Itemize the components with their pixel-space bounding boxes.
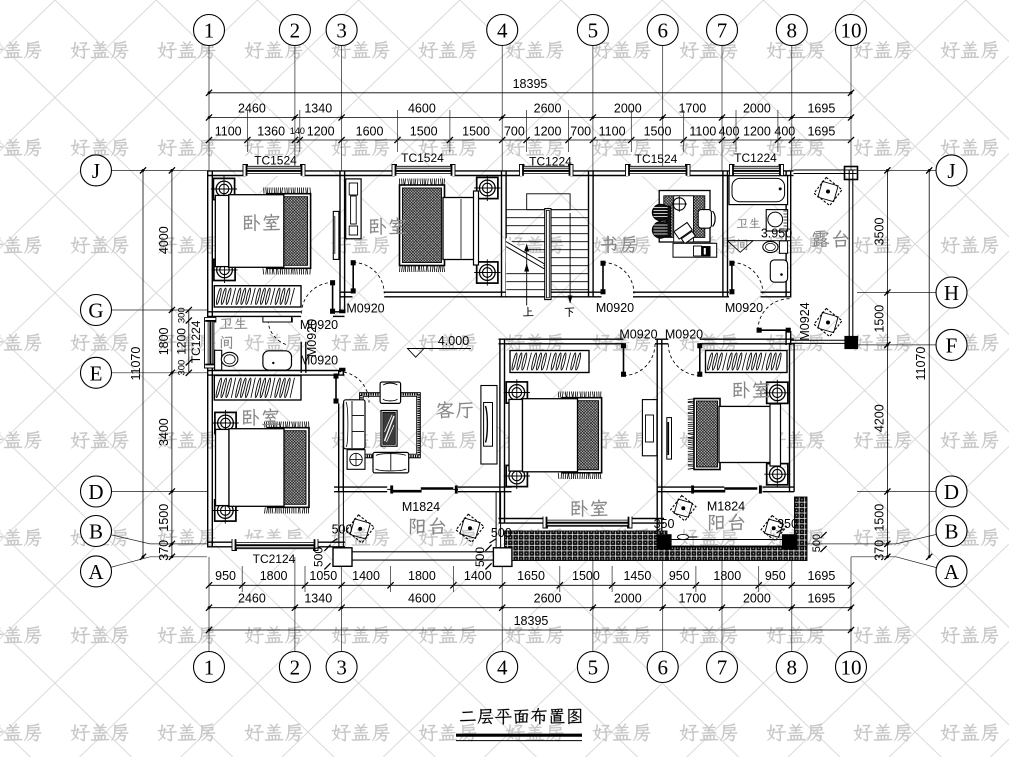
axis A right leader <box>851 557 936 568</box>
bathroom right wall <box>300 315 302 317</box>
wardrobe bedroom1 <box>214 286 301 307</box>
room label 卫生间 top bath <box>737 218 761 228</box>
window TC1224 stairwell <box>520 165 574 177</box>
svg-text:3400: 3400 <box>157 418 171 446</box>
svg-text:1500: 1500 <box>410 124 438 138</box>
svg-text:1500: 1500 <box>157 504 171 532</box>
stair label 上 <box>523 307 533 316</box>
plant right balcony E <box>761 516 786 541</box>
window TC1224 bath <box>730 165 784 177</box>
elevation 3.950 <box>727 240 791 242</box>
sofa west <box>344 400 365 449</box>
svg-text:4: 4 <box>497 655 508 679</box>
svg-text:1800: 1800 <box>260 569 288 583</box>
plant right balcony W <box>671 496 696 521</box>
top dimension line total 18395 <box>209 92 851 94</box>
svg-text:1400: 1400 <box>464 569 492 583</box>
svg-text:1200: 1200 <box>307 124 335 138</box>
svg-text:1340: 1340 <box>304 102 332 116</box>
svg-text:M0920: M0920 <box>596 301 634 315</box>
column right bedroom SE <box>764 461 790 487</box>
column bedroom1 NW <box>211 176 237 202</box>
room label 卧室 bedroom2 <box>370 217 406 234</box>
svg-text:1800: 1800 <box>408 569 436 583</box>
svg-text:1050: 1050 <box>309 569 337 583</box>
svg-text:2460: 2460 <box>238 102 266 116</box>
svg-text:H: H <box>944 281 959 305</box>
checker strip center (tall) <box>505 531 668 561</box>
svg-text:1650: 1650 <box>517 569 545 583</box>
axis bubbles left <box>81 155 112 186</box>
interior wall bedrooms1/2 divider <box>339 171 341 312</box>
stair label 下 <box>565 308 575 318</box>
svg-text:E: E <box>90 361 103 385</box>
axis A left leader <box>110 557 207 568</box>
top extension lines <box>246 110 248 152</box>
svg-text:TC2124: TC2124 <box>253 552 296 566</box>
svg-text:500: 500 <box>491 526 512 540</box>
desk crosshair <box>673 198 685 210</box>
svg-text:4.000: 4.000 <box>438 334 469 348</box>
wardrobe right bedroom <box>706 351 788 373</box>
window bc-bedroom bottom <box>543 517 632 529</box>
svg-text:1500: 1500 <box>644 124 672 138</box>
svg-text:1340: 1340 <box>304 592 332 606</box>
svg-text:5: 5 <box>588 655 599 679</box>
sliding door M1824 right balcony <box>694 490 726 493</box>
corridor top wall <box>340 291 353 293</box>
bedside panel bedroom1 east wall <box>333 211 339 259</box>
svg-text:1: 1 <box>204 655 215 679</box>
column bc-bedroom SW <box>504 463 530 489</box>
door M0920 right bedroom <box>699 345 701 376</box>
svg-text:2000: 2000 <box>614 592 642 606</box>
left dimension axis row <box>171 170 173 556</box>
side table SW <box>347 450 365 470</box>
stair lower treads <box>506 274 544 290</box>
svg-text:2600: 2600 <box>534 102 562 116</box>
stair center rail <box>545 209 551 300</box>
svg-text:2: 2 <box>290 18 301 42</box>
horizontal axis grid lines left stubs <box>112 169 208 171</box>
svg-text:7: 7 <box>717 18 728 42</box>
window TC1224 bathroom left (vertical) <box>205 317 216 368</box>
armchair north <box>380 382 401 403</box>
right balcony column W (filled) <box>657 535 671 549</box>
bed bedroom2 (head right) <box>400 179 445 273</box>
svg-text:500: 500 <box>473 547 487 567</box>
room label 卫生间 left <box>220 317 247 329</box>
terrace corner post J <box>845 167 858 180</box>
stair right wall <box>588 171 590 297</box>
svg-text:18395: 18395 <box>514 614 549 628</box>
svg-text:1700: 1700 <box>678 592 706 606</box>
room label 书房 study <box>601 236 637 253</box>
room label 阳台 left balcony <box>410 517 445 535</box>
svg-text:M0920: M0920 <box>665 327 703 341</box>
svg-text:8: 8 <box>787 655 798 679</box>
svg-text:140: 140 <box>290 126 305 136</box>
svg-text:1500: 1500 <box>462 124 490 138</box>
stair break lines <box>506 247 548 272</box>
svg-text:TC1524: TC1524 <box>401 151 444 165</box>
right bedroom bottom wall <box>657 486 724 488</box>
svg-text:D: D <box>88 480 103 504</box>
toilet bathroom left <box>215 350 222 370</box>
top dimension line axis spans <box>209 117 851 119</box>
svg-text:B: B <box>944 519 958 543</box>
svg-text:350: 350 <box>777 517 798 531</box>
study right / bath left wall <box>722 171 724 297</box>
svg-text:1800: 1800 <box>157 327 171 355</box>
office chair east <box>698 210 711 229</box>
plant terrace S <box>814 308 842 336</box>
washbasin unit top bath <box>766 210 787 231</box>
svg-text:M0920: M0920 <box>305 319 319 357</box>
plant left balcony W <box>346 515 374 543</box>
svg-text:2000: 2000 <box>614 102 642 116</box>
bed right bedroom (head right) <box>688 399 694 469</box>
svg-text:950: 950 <box>669 569 690 583</box>
svg-text:1200: 1200 <box>175 328 189 355</box>
svg-text:3: 3 <box>336 18 347 42</box>
bed bc-bedroom <box>509 392 602 480</box>
column bedroom2 SE <box>474 259 500 285</box>
svg-text:1700: 1700 <box>678 102 706 116</box>
svg-text:M1824: M1824 <box>707 499 745 513</box>
exterior left wall <box>207 171 209 319</box>
svg-text:4000: 4000 <box>157 226 171 254</box>
nook jamb caps <box>339 310 345 313</box>
svg-text:500: 500 <box>312 547 326 567</box>
stairwell treads <box>506 210 588 290</box>
terrace bottom rail <box>791 339 849 341</box>
svg-text:11070: 11070 <box>129 347 143 381</box>
door M0920 bedroom2 <box>352 262 354 293</box>
room label 卧室 right <box>734 381 770 398</box>
bed bedroom1 <box>215 188 310 275</box>
toilet top bath <box>763 241 778 252</box>
sink bathroom left <box>263 351 292 370</box>
svg-text:300: 300 <box>177 307 188 323</box>
right dimension axis row <box>886 170 888 556</box>
svg-text:1695: 1695 <box>807 124 835 138</box>
svg-text:M1824: M1824 <box>402 500 440 514</box>
horizontal axis grid lines right stubs <box>857 169 936 171</box>
door M0920 bedroom1 <box>332 282 334 313</box>
tv panel right bedroom west wall <box>667 418 672 460</box>
svg-text:1200: 1200 <box>534 124 562 138</box>
stair landing <box>527 194 570 210</box>
svg-text:M0920: M0920 <box>300 353 338 367</box>
checker strip right vertical <box>795 497 808 546</box>
svg-text:10: 10 <box>841 655 862 679</box>
column bedroom2 NE <box>474 175 500 201</box>
svg-text:1500: 1500 <box>572 569 600 583</box>
bed bottom-left bedroom <box>216 422 310 514</box>
room label 卧室 bottom-center <box>572 499 608 516</box>
bathtub <box>729 176 788 205</box>
window TC2124 bottom-left bedroom <box>232 539 318 551</box>
svg-text:1450: 1450 <box>623 569 651 583</box>
door M0920 bathroom <box>268 319 292 321</box>
svg-text:1100: 1100 <box>215 124 242 138</box>
svg-text:D: D <box>944 480 959 504</box>
window TC1524 bedroom2 <box>392 165 455 177</box>
svg-text:J: J <box>947 159 955 183</box>
svg-text:1500: 1500 <box>872 305 886 333</box>
svg-text:950: 950 <box>215 569 236 583</box>
svg-text:F: F <box>946 333 958 357</box>
svg-text:5: 5 <box>588 18 599 42</box>
loveseat south <box>373 452 409 473</box>
bottom extension lines <box>241 566 243 592</box>
axis bubbles bottom <box>194 652 225 683</box>
living room rug <box>360 393 421 458</box>
svg-text:1100: 1100 <box>599 124 626 138</box>
svg-text:1695: 1695 <box>807 569 835 583</box>
plant terrace N <box>814 177 842 205</box>
door M0920 study <box>602 262 604 293</box>
elevation 4.000 <box>407 348 471 350</box>
svg-text:500: 500 <box>332 522 353 536</box>
door M0920 bc-bedroom <box>623 345 625 376</box>
left balcony column E <box>493 548 512 567</box>
svg-text:6: 6 <box>657 18 668 42</box>
desk chairs west (dark) <box>652 204 670 238</box>
svg-text:300: 300 <box>177 360 188 376</box>
column bottom-left bedroom S <box>212 497 238 523</box>
svg-text:1200: 1200 <box>743 124 771 138</box>
svg-text:1695: 1695 <box>807 592 835 606</box>
room label 阳台 right balcony <box>709 513 744 531</box>
door M0920 top bath <box>731 262 733 293</box>
stair break mask <box>506 243 549 296</box>
bathroom bottom wall <box>207 370 345 372</box>
window TC1524 study <box>626 165 691 177</box>
svg-text:1800: 1800 <box>713 569 741 583</box>
svg-text:1400: 1400 <box>352 569 380 583</box>
living room bottom wall <box>334 486 387 488</box>
vertical axis grid lines <box>209 46 851 652</box>
study side table <box>673 243 717 257</box>
keyboard tilted <box>674 222 696 244</box>
exterior top wall <box>207 170 246 172</box>
bathroom top wall / bedroom1 south <box>207 311 301 313</box>
sliding door M1824 living room <box>387 488 392 490</box>
door M0920 bottom-left bedroom <box>335 375 337 403</box>
svg-text:7: 7 <box>717 655 728 679</box>
bottom dimension axis row <box>209 607 851 609</box>
svg-text:M0920: M0920 <box>725 301 763 315</box>
exterior right wall lower (bedroom) <box>789 343 791 492</box>
door M0924 terrace <box>758 329 790 331</box>
svg-text:700: 700 <box>504 124 525 138</box>
svg-text:TC1224: TC1224 <box>529 154 572 168</box>
axis B right leader <box>807 535 936 544</box>
svg-text:2000: 2000 <box>743 592 771 606</box>
svg-text:4600: 4600 <box>408 592 436 606</box>
svg-text:4600: 4600 <box>408 102 436 116</box>
bc-bedroom bottom wall <box>499 518 547 520</box>
plant left balcony E <box>456 514 484 542</box>
corridor bottom wall (south bedrooms top) <box>499 338 624 340</box>
coffee table <box>381 411 397 447</box>
svg-text:A: A <box>944 560 960 584</box>
left dimension total 11070 <box>142 170 144 556</box>
axis B left leader <box>110 535 207 544</box>
left balcony side rails <box>338 492 340 548</box>
svg-text:1500: 1500 <box>872 504 886 532</box>
right dimension total 11070 <box>928 170 930 556</box>
svg-text:11070: 11070 <box>914 347 928 381</box>
stair left wall <box>501 171 503 297</box>
svg-text:3: 3 <box>336 655 347 679</box>
svg-text:TC1524: TC1524 <box>635 152 678 166</box>
terrace top rail <box>794 169 857 171</box>
stair up arrow <box>526 249 528 306</box>
svg-text:2600: 2600 <box>534 592 562 606</box>
bottom-left bedroom bottom wall <box>207 541 235 543</box>
axis bubbles right <box>936 155 967 186</box>
svg-text:18395: 18395 <box>513 77 548 91</box>
svg-text:700: 700 <box>570 124 591 138</box>
room label 卧室 bedroom1 <box>244 214 280 231</box>
svg-text:TC1224: TC1224 <box>189 320 203 363</box>
column right bedroom NE <box>764 380 790 406</box>
shower basin top bath <box>770 260 787 282</box>
column bottom-left bedroom N <box>212 410 238 436</box>
wardrobe bc-bedroom <box>510 351 589 373</box>
room label 卧室 bottom-left <box>243 408 279 425</box>
top dimension line detail row <box>209 139 851 141</box>
shelf above sink <box>263 317 292 322</box>
svg-text:1695: 1695 <box>807 102 835 116</box>
study desk <box>659 191 710 243</box>
svg-text:J: J <box>92 159 100 183</box>
svg-text:M0920: M0920 <box>346 301 384 315</box>
tv panel bc-bedroom east wall <box>642 400 657 456</box>
svg-text:G: G <box>88 298 103 322</box>
terrace corner post F (filled) <box>845 337 858 349</box>
living room left wall <box>338 371 340 375</box>
left balcony column W <box>333 548 352 567</box>
bottom dimension total 18395 <box>209 629 851 631</box>
room label 露台 terrace <box>812 230 848 248</box>
svg-text:1: 1 <box>204 18 215 42</box>
svg-text:TC1524: TC1524 <box>254 153 297 167</box>
svg-text:A: A <box>88 560 104 584</box>
svg-text:6: 6 <box>657 655 668 679</box>
drain symbol right balcony <box>678 534 689 539</box>
living room / bc-bedroom divider wall <box>499 339 501 523</box>
wardrobe bottom-left bedroom <box>214 376 301 401</box>
svg-text:950: 950 <box>765 569 786 583</box>
svg-text:10: 10 <box>841 18 862 42</box>
column bedroom1 SW <box>211 257 237 283</box>
svg-text:1600: 1600 <box>356 124 384 138</box>
stair down arrow <box>569 213 571 303</box>
svg-text:350: 350 <box>654 517 675 531</box>
svg-text:TC1224: TC1224 <box>734 151 777 165</box>
svg-text:4: 4 <box>497 18 508 42</box>
svg-text:2460: 2460 <box>238 592 266 606</box>
title 二层平面布置图 <box>460 708 582 725</box>
axis bubbles top <box>194 15 225 46</box>
svg-text:8: 8 <box>787 18 798 42</box>
bottom dimension detail row <box>209 584 851 586</box>
left balcony rails <box>352 551 493 553</box>
svg-text:M0924: M0924 <box>798 302 812 340</box>
column bc-bedroom NW <box>504 379 530 405</box>
svg-text:B: B <box>89 519 103 543</box>
bc-bedroom / right bedroom divider <box>656 339 658 535</box>
title underline thick <box>456 734 582 737</box>
svg-text:3500: 3500 <box>872 218 886 246</box>
terrace right rail <box>848 170 850 342</box>
svg-text:2: 2 <box>290 655 301 679</box>
svg-text:1360: 1360 <box>257 124 285 138</box>
svg-text:370: 370 <box>157 540 171 561</box>
exterior right wall upper (bath) <box>785 171 787 298</box>
title underline thin <box>456 740 582 742</box>
svg-text:M0920: M0920 <box>619 327 657 341</box>
svg-text:3.950: 3.950 <box>761 226 792 240</box>
svg-text:4200: 4200 <box>872 404 886 432</box>
right balcony rails <box>671 539 783 541</box>
right balcony column E (filled) <box>783 535 797 549</box>
wardrobe bedroom2 (vertical cabinet) <box>346 179 361 239</box>
left dimension window detail <box>188 310 190 373</box>
svg-text:1100: 1100 <box>689 124 716 138</box>
room label 客厅 living room <box>436 401 472 418</box>
svg-text:370: 370 <box>872 540 886 561</box>
svg-text:2000: 2000 <box>743 102 771 116</box>
checker strip right (short) <box>667 546 807 561</box>
window TC1524 bedroom1 <box>243 165 305 177</box>
TV cabinet living room <box>481 386 497 465</box>
